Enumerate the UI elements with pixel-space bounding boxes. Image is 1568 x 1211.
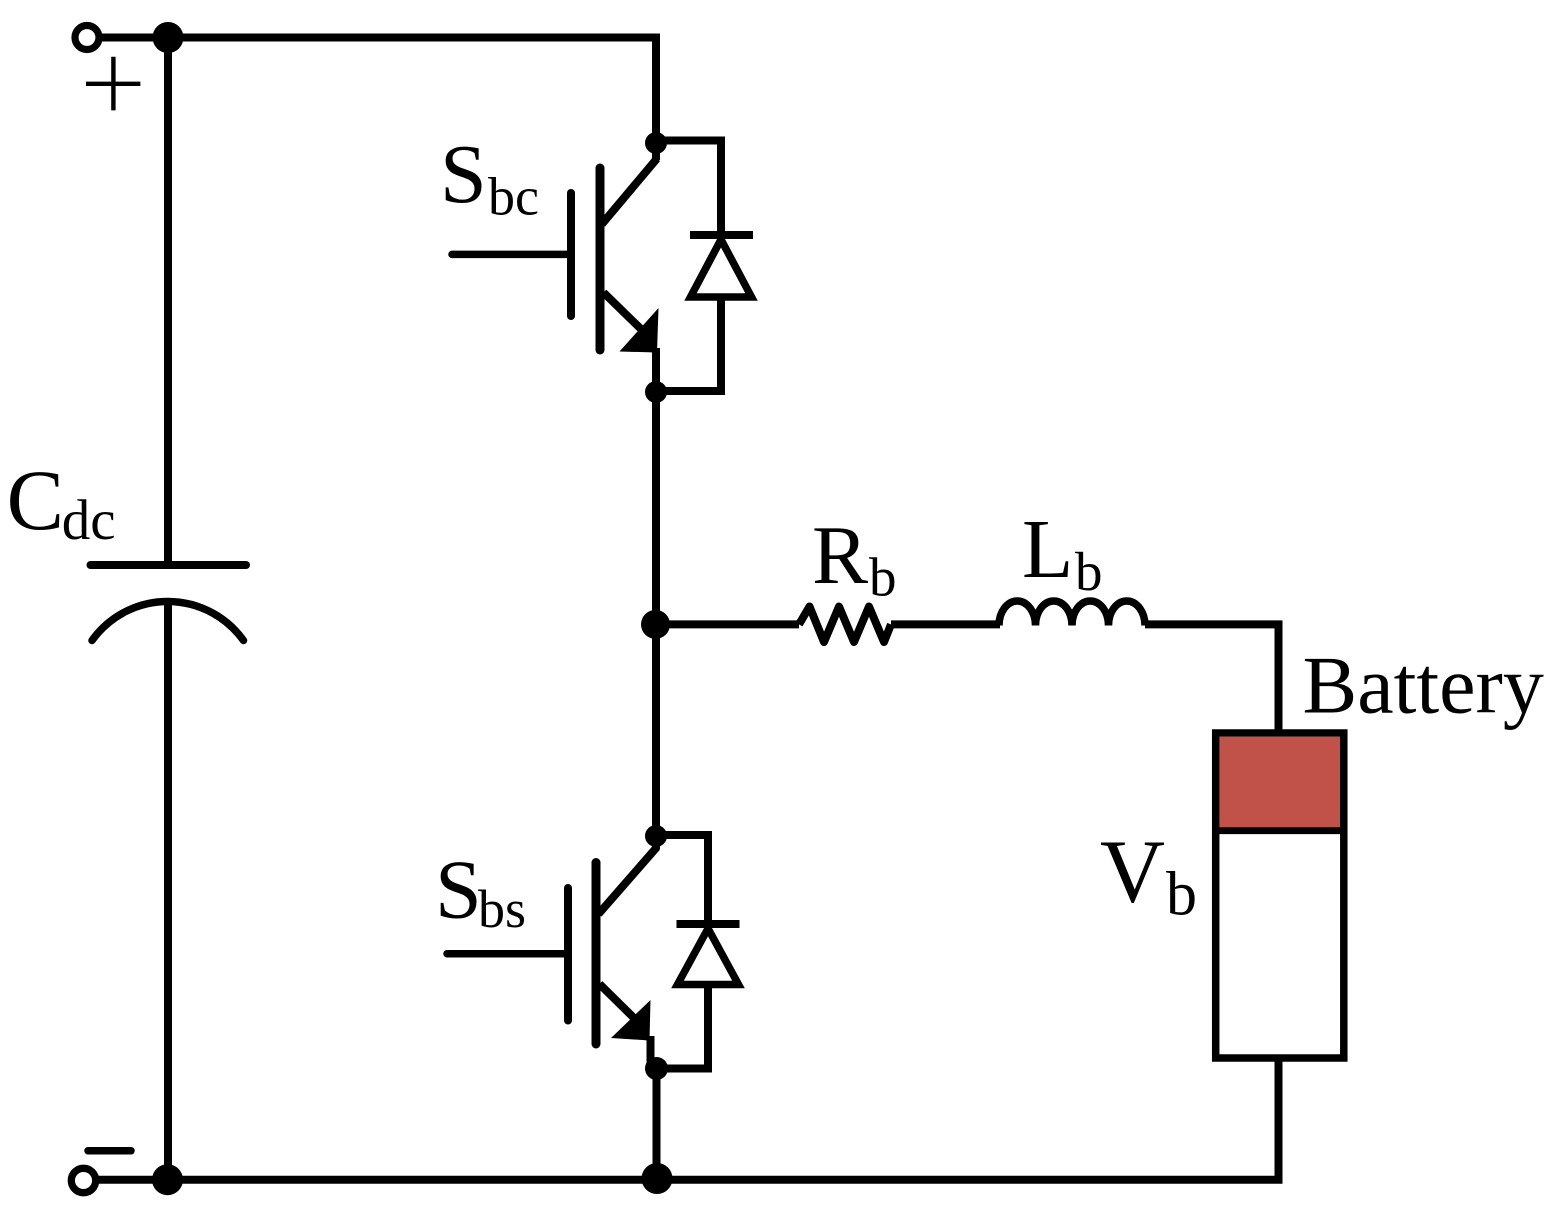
svg-text:L: L — [1022, 503, 1073, 596]
svg-text:V: V — [1100, 823, 1165, 922]
gate lead Sbs — [447, 950, 568, 958]
diode D2 triangle — [678, 929, 739, 985]
node collector Sbs — [645, 825, 667, 847]
capacitor Cdc curved plate — [92, 601, 244, 640]
wire battery to bottom bus — [1275, 1058, 1283, 1180]
wire inductor to battery — [1145, 624, 1279, 733]
battery divider — [1212, 827, 1348, 834]
node emitter Sbs — [645, 1057, 668, 1080]
wire mid rail — [652, 392, 660, 836]
node top-left junction — [153, 22, 184, 53]
wire midpoint to resistor — [656, 620, 799, 628]
svg-text:bc: bc — [488, 167, 539, 227]
plus sign — [86, 57, 140, 111]
body bar Sbc — [596, 168, 605, 350]
emitter lead Sbs — [600, 984, 651, 1069]
resistor Rb — [799, 607, 891, 643]
svg-text:S: S — [435, 843, 482, 936]
node collector Sbc — [645, 132, 667, 154]
emitter arrow Sbs — [611, 1000, 651, 1041]
wire emitter to bottom bus — [653, 1069, 661, 1180]
node bottom-middle junction — [642, 1163, 673, 1194]
gate lead Sbc — [452, 251, 571, 259]
node bottom-left junction — [152, 1164, 183, 1195]
diode D1 cathode bar — [690, 231, 753, 239]
svg-text:b: b — [1075, 541, 1103, 602]
svg-text:b: b — [1166, 861, 1197, 929]
terminal - (open circle) — [71, 1168, 95, 1192]
svg-text:b: b — [869, 546, 897, 607]
svg-text:C: C — [7, 452, 64, 548]
node midpoint — [641, 610, 670, 639]
svg-text:bs: bs — [478, 879, 526, 939]
wire diode branch top Sbs — [656, 835, 708, 924]
wire diode branch bottom Sbc — [656, 297, 721, 391]
wire diode branch top Sbc — [656, 141, 721, 236]
capacitor Cdc top plate — [91, 561, 247, 569]
collector lead Sbc — [602, 139, 657, 224]
diode D1 triangle — [691, 240, 752, 298]
terminal + (open circle) — [75, 26, 99, 50]
svg-text:Battery: Battery — [1303, 640, 1544, 731]
emitter lead Sbc — [604, 293, 657, 393]
minus sign — [88, 1147, 131, 1155]
wire bottom bus — [84, 1176, 1283, 1184]
diode D2 cathode bar — [677, 920, 740, 928]
emitter arrow Sbc — [620, 308, 659, 353]
gate bar Sbc — [567, 193, 575, 316]
collector lead Sbs — [599, 832, 658, 914]
wire resistor to inductor — [891, 620, 1000, 628]
svg-text:S: S — [440, 128, 487, 221]
inductor Lb — [999, 601, 1145, 626]
body bar Sbs — [592, 863, 601, 1045]
battery Vb body — [1216, 733, 1344, 1058]
gate bar Sbs — [564, 888, 572, 1021]
svg-text:dc: dc — [62, 489, 116, 552]
wire top bus from + terminal to top IGBT collector — [87, 38, 656, 144]
wire diode branch bottom Sbs — [655, 985, 708, 1069]
wire left rail lower — [164, 601, 172, 1180]
wire left rail upper — [164, 38, 172, 566]
battery red cell top — [1220, 737, 1341, 827]
svg-text:R: R — [812, 509, 868, 602]
node emitter Sbc — [645, 381, 667, 403]
